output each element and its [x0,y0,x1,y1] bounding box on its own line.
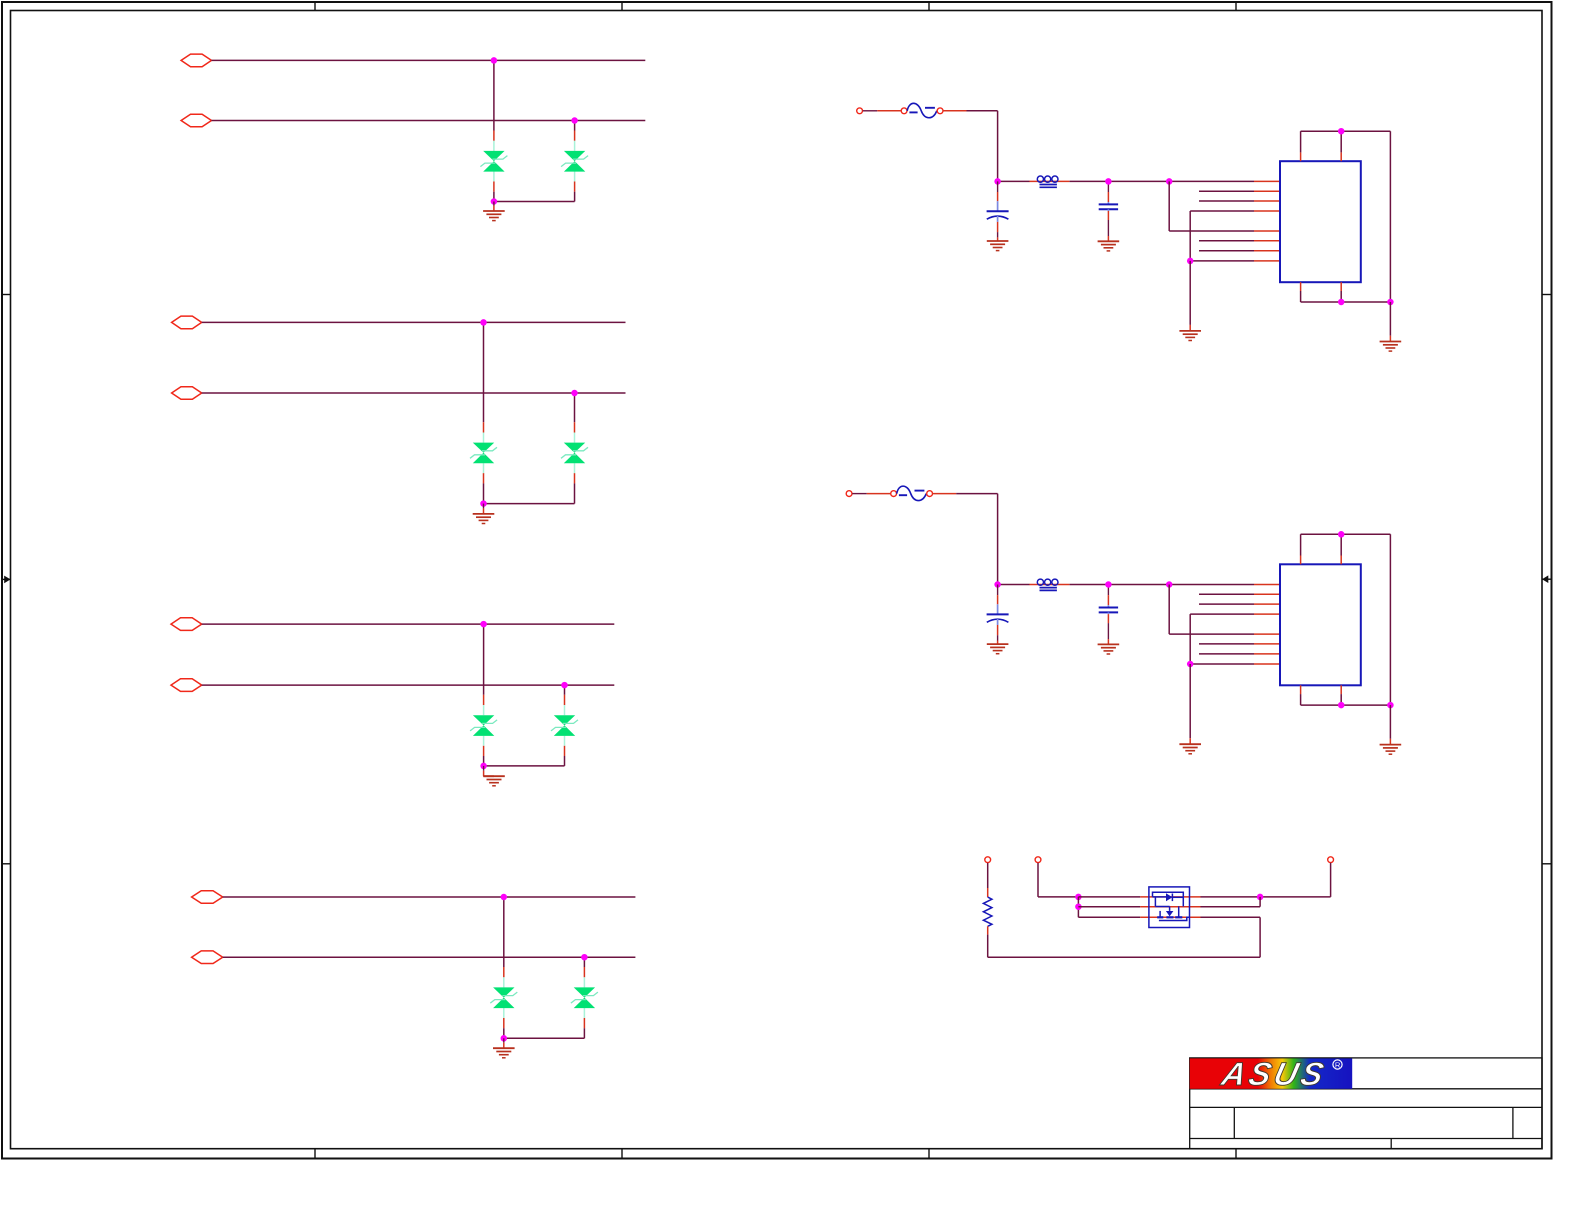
wire net3A [202,623,615,625]
wire mount bottom CN1 [1301,301,1391,303]
mount pin stub top CN1 [1340,152,1342,161]
wire T2 down [1037,863,1039,897]
port connector P3B [171,679,202,692]
wire pin 2 CN2 [1199,593,1254,595]
ground mount CN2 [1380,745,1402,755]
junction row A right [1257,894,1264,901]
wire D41 to ground node [503,1028,505,1038]
mount pin stub bottom CN2 [1300,685,1302,694]
junction row B [1075,903,1082,910]
wire net4B [223,956,636,958]
junction mount right CN1 [1387,299,1394,306]
TVS diode D21 [470,422,497,483]
wire VBUS1 rail a [998,180,1030,182]
pin 1 stub CN1 [1254,180,1280,182]
ground stem group 3 [483,766,485,771]
TVS diode D12 [561,131,588,192]
junction VBUS2 branch [1166,581,1173,588]
wire net4B drop [583,957,585,967]
wire D11 to ground node [493,192,495,202]
wire R1 to bottom bus [987,935,989,958]
port connector P2A [172,316,202,329]
wire pin 6 CN1 [1199,240,1254,242]
ground CN2 shield [1179,744,1201,754]
wire up to T3 [1330,863,1332,897]
TVS diode D31 [470,695,497,756]
wire T1 down [987,863,989,888]
wire F2 to rail corner [956,493,997,495]
wire net4A [223,896,636,898]
wire row A to Q1 [1078,896,1140,898]
junction net2A [480,319,487,326]
junction net1A [491,57,498,64]
TVS diode D42 [571,967,598,1028]
wire VBUS1 rail b [1070,180,1255,182]
junction ground node group 3 [480,763,487,770]
wire net3B drop [564,685,566,695]
wire D32 down [564,756,566,766]
junction VBUS2 cap1 [994,581,1001,588]
wire F1 to rail corner [967,110,998,112]
wire net2A drop [483,322,485,422]
junction mount top CN2 [1338,531,1345,538]
wire net3A drop [483,624,485,695]
wire row B to Q1 [1078,906,1140,908]
terminal T2 [1035,857,1041,863]
border tick right y294.5 [1542,294,1552,296]
ground stem CN1 shield [1189,261,1191,325]
inductor L1 [1029,176,1069,187]
wire VBUS2 drop [997,494,999,585]
ground C12 [1098,241,1120,251]
pin 5 stub CN2 [1254,633,1280,635]
USB connector CN2 body [1280,564,1361,685]
ground C21 [987,644,1009,654]
wire pin 4 CN2 [1190,613,1254,615]
wire net3B [202,684,615,686]
capacitor C21 (polarized) [987,585,1009,645]
border tick top x1236 [1235,2,1237,11]
wire pin 2 CN1 [1199,190,1254,192]
wire pin 8 CN1 [1190,260,1254,262]
wire pin 6 CN2 [1199,643,1254,645]
resistor R1 bottom stub [987,926,989,934]
svg-text:R: R [1335,1061,1341,1070]
border tick bottom x315 [314,1149,316,1159]
transistor Q1 (P-MOSFET package) [1149,887,1190,928]
wire pin 3 CN1 [1199,200,1254,202]
Q1 pin stub row C [1140,916,1200,918]
ground stem mount CN2 [1389,705,1391,739]
border tick left y863.8 [2,863,11,865]
ground group 2 [473,514,495,524]
port connector P4B [192,951,223,964]
wire ground bus group 2 [484,503,575,505]
wire net2A [202,321,626,323]
border tick top x929 [928,2,930,11]
port connector P1A [181,54,211,67]
junction net4A [501,894,508,901]
junction VBUS2 cap2 [1105,581,1112,588]
terminal T3 [1328,857,1334,863]
junction net3B [561,682,568,689]
capacitor C11 (polarized) [987,181,1009,241]
border tick bottom x1236 [1235,1149,1237,1159]
port connector P1B [181,114,211,127]
junction ground node group 2 [480,500,487,507]
wire mount bottom CN2 [1301,704,1391,706]
ground group 1 [483,211,505,221]
fuse F1 [857,103,943,117]
wire fuse F1 output [943,110,966,112]
border tick left y294.5 [2,294,11,296]
TVS diode D22 [561,422,588,483]
wire net2B [202,392,626,394]
wire D22 down [574,483,576,503]
wire net1A drop [493,60,495,130]
wire mount top CN1 [1301,130,1391,132]
capacitor C12 [1099,181,1118,241]
junction ground node group 4 [501,1035,508,1042]
fuse F2 [846,486,932,500]
junction net4B [581,954,588,961]
wire ground bus group 4 [504,1037,585,1039]
mount pin stub top CN2 [1340,556,1342,565]
port connector P4A [192,891,223,904]
USB connector CN1 body [1280,161,1361,282]
wire pin4-pin8 tie CN2 [1189,614,1191,664]
wire ground bus group 1 [494,201,575,203]
wire net4A drop [503,897,505,967]
ground stem group 1 [493,202,495,206]
ground CN1 shield [1179,331,1201,341]
svg-text:ASUS: ASUS [1217,1055,1330,1092]
wire fuse F2 output [933,493,957,495]
junction net1B [571,117,578,124]
wire net2B drop [574,393,576,422]
ground stem group 2 [483,504,485,509]
wire pin 7 CN2 [1199,653,1254,655]
wire mount top CN2 [1301,533,1391,535]
mount pin stub bottom CN1 [1300,282,1302,291]
junction mount bottom CN2 [1338,702,1345,709]
mount pin stub bottom CN1 [1340,282,1342,291]
wire bottom bus rise [1259,917,1261,957]
port connector P2B [172,387,202,400]
wire VBUS1 drop [997,111,999,182]
mount pin stub top CN2 [1300,556,1302,565]
junction row A [1075,894,1082,901]
wire row C right [1201,916,1261,918]
wire mount right CN2 [1389,534,1391,705]
ground stem group 4 [503,1038,505,1042]
TVS diode D32 [551,695,578,756]
Q1 pin stub row A [1140,896,1200,898]
wire net1B drop [574,121,576,131]
ground C11 [987,241,1009,251]
junction ground node group 1 [491,198,498,205]
wire pin 3 CN2 [1199,603,1254,605]
wire pin 8 CN2 [1190,663,1254,665]
ASUS logo [1190,1055,1353,1092]
TVS diode D11 [480,131,507,192]
wire pin4-pin8 tie CN1 [1189,211,1191,261]
junction net2B [571,390,578,397]
port connector P3A [171,618,202,631]
junction shield CN2 [1187,661,1194,668]
wire row C to Q1 [1078,916,1140,918]
junction mount top CN1 [1338,128,1345,135]
ground group 4 [493,1048,515,1058]
ground mount CN1 [1380,342,1402,352]
wire row A right [1201,896,1331,898]
wire pin 4 CN1 [1190,210,1254,212]
border tick right y863.8 [1542,863,1552,865]
capacitor C22 [1099,585,1118,645]
inductor L2 [1029,579,1069,590]
wire branch to pin5 CN1 [1168,181,1170,231]
junction mount right CN2 [1387,702,1394,709]
wire row A left [1038,896,1078,898]
wire VBUS2 rail b [1070,584,1255,586]
wire pin 7 CN1 [1199,250,1254,252]
border tick bottom x622 [621,1149,623,1159]
border tick top x622 [621,2,623,11]
ground group 3 [483,776,505,786]
TVS diode D41 [490,967,517,1028]
ground C22 [1098,644,1120,654]
wire VBUS2 rail a [998,584,1030,586]
junction VBUS1 branch [1166,178,1173,185]
wire D21 to ground node [483,483,485,503]
junction net3A [480,621,487,628]
wire net1A [212,59,646,61]
resistor R1 top stub [987,888,989,897]
ground stem mount CN1 [1389,302,1391,336]
wire branch to pin5 CN2 [1168,585,1170,635]
junction mount bottom CN1 [1338,299,1345,306]
border centre arrow left [2,576,11,584]
junction VBUS1 cap1 [994,178,1001,185]
border centre arrow right [1542,575,1552,583]
wire bottom bus [988,956,1260,958]
ground stem CN2 shield [1189,664,1191,738]
title block [1190,1058,1542,1149]
wire D31 to ground node [483,756,485,766]
wire ground bus group 3 [484,765,565,767]
wire row B right [1201,906,1261,908]
junction VBUS1 cap2 [1105,178,1112,185]
pin 5 stub CN1 [1254,230,1280,232]
resistor R1 [983,897,992,926]
wire D42 down [583,1028,585,1038]
mount pin stub top CN1 [1300,152,1302,161]
mount pin stub bottom CN2 [1340,685,1342,694]
terminal T1 [985,857,991,863]
junction shield CN1 [1187,258,1194,265]
Q1 pin stub row B [1140,906,1200,908]
pin 1 stub CN2 [1254,584,1280,586]
wire row B rise [1259,897,1261,907]
border tick bottom x929 [928,1149,930,1159]
wire gate tie vertical [1077,897,1079,917]
border tick top x315 [314,2,316,11]
wire net1B [212,120,646,122]
wire mount right CN1 [1389,131,1391,302]
wire D12 down [574,192,576,202]
